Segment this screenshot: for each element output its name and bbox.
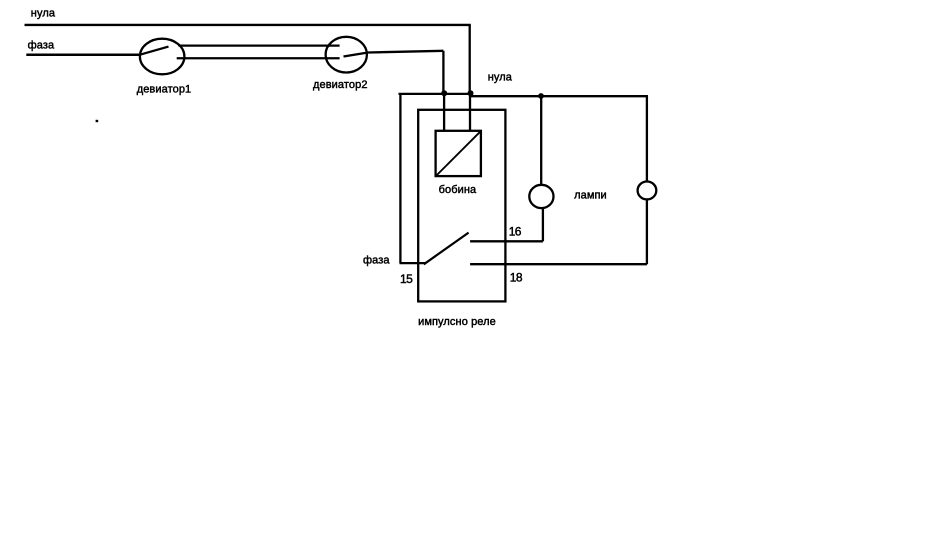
wire: lamp2 top lead [646, 96, 648, 181]
svg-text:бобина: бобина [439, 184, 477, 196]
switch девиатор1 blade [140, 47, 169, 55]
wire: фаза drop to pin 15 (vertical) [399, 94, 401, 263]
lamp 1 [529, 185, 553, 208]
wire: lamp1 top lead [540, 96, 542, 184]
relay switch blade pin15 to pin16 [424, 233, 469, 265]
svg-text:16: 16 [509, 224, 522, 238]
switch девиатор1 body [140, 39, 185, 75]
wire: lower traveler between deviators [177, 57, 340, 59]
wire: нула top horizontal bus [25, 24, 471, 26]
svg-text:фаза: фаза [28, 39, 55, 51]
wire: node bus from фаза drop to coil (left segment) [399, 93, 471, 95]
lamp 2 [638, 182, 657, 200]
svg-text:15: 15 [400, 272, 413, 286]
junction dot: фаза/coil node [441, 90, 447, 96]
wire: coil left terminal [443, 93, 445, 130]
wire: pin 18 to lamp2 [470, 263, 647, 265]
wire: pin 15 stub (horizontal) [400, 262, 426, 264]
svg-text:нула: нула [31, 8, 56, 20]
wire: coil right terminal [469, 93, 471, 130]
svg-text:девиатор2: девиатор2 [313, 79, 368, 91]
wire: нула bus to lamps (right segment) [470, 95, 649, 97]
switch девиатор2 body [326, 37, 367, 73]
svg-text:импулсно реле: импулсно реле [418, 316, 496, 328]
wire: фаза from девиатор2 to corner [368, 51, 443, 53]
svg-text:фаза: фаза [363, 254, 390, 266]
wire: lamp1 bottom lead [542, 209, 544, 242]
svg-text:18: 18 [510, 270, 523, 284]
wire: pin 16 to lamp1 [470, 240, 543, 242]
wire: lamp2 bottom lead [646, 200, 648, 265]
junction dot: нула/coil node [468, 90, 474, 96]
switch девиатор2 blade [344, 53, 369, 57]
coil square бобина [436, 131, 481, 176]
wire: фаза vertical drop at x=443.4 [442, 51, 444, 94]
relay box импулсно реле [418, 110, 505, 302]
wire: upper traveler between deviators [179, 45, 340, 47]
wire: фаза feed into девиатор1 [26, 54, 140, 56]
svg-text:девиатор1: девиатор1 [137, 83, 192, 95]
svg-text:лампи: лампи [574, 189, 607, 201]
junction dot: lamp1 branch [538, 93, 544, 99]
wire: нула vertical drop at x=470 [469, 25, 471, 94]
stray ink dot [96, 120, 99, 122]
coil diagonal [435, 131, 481, 177]
svg-text:нула: нула [488, 72, 513, 84]
